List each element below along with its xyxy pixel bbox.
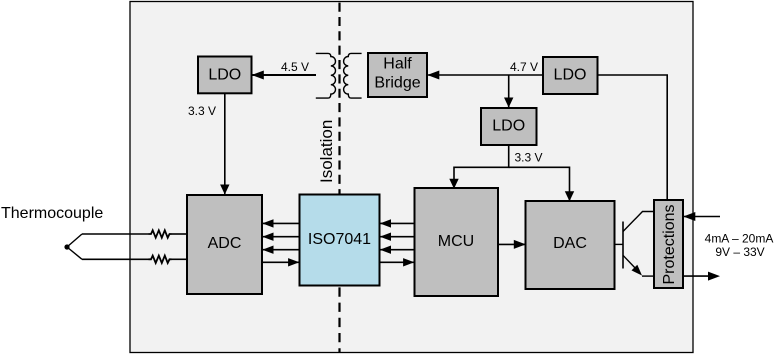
wire data line ADC-ISO 1 (into ADC) xyxy=(262,222,300,224)
svg-text:LDO: LDO xyxy=(492,118,525,135)
svg-text:LDO: LDO xyxy=(554,66,587,83)
svg-text:LDO: LDO xyxy=(208,66,241,83)
wire 4.7V: LDO2 to Half Bridge xyxy=(427,74,543,76)
wire data line ISO-MCU 2 (into ISO7041) xyxy=(380,236,415,238)
wire data line ISO-MCU 4 (into MCU) xyxy=(380,261,415,263)
wire: junction down to LDO3 xyxy=(508,75,510,107)
svg-text:MCU: MCU xyxy=(438,233,474,250)
ADC block xyxy=(187,195,262,294)
svg-text:ISO7041: ISO7041 xyxy=(308,231,371,248)
wire data line ADC-ISO 2 (into ADC) xyxy=(262,236,300,238)
wire data line ADC-ISO 4 (into ISO7041) xyxy=(262,261,300,263)
output arrow from Protections right side xyxy=(683,275,709,277)
wire 3.3V: LDO1 down to ADC xyxy=(224,93,226,194)
LDO U2 (bus side) xyxy=(543,57,598,94)
splitter bar xyxy=(622,222,624,269)
wire data line ISO-MCU 3 (into ISO7041) xyxy=(380,249,415,251)
svg-text:DAC: DAC xyxy=(553,235,587,252)
Half Bridge block xyxy=(368,53,427,97)
resistor (upper thermocouple lead) xyxy=(149,230,172,237)
Protections block xyxy=(654,200,683,288)
svg-text:4.5 V: 4.5 V xyxy=(281,60,309,74)
wire data line ADC-ISO 3 (into ADC) xyxy=(262,249,300,251)
DAC block xyxy=(526,201,615,289)
LDO U3 (3.3V) xyxy=(481,108,537,145)
input arrow into Protections right side xyxy=(683,216,720,218)
resistor (lower thermocouple lead) xyxy=(149,256,172,263)
wire thermocouple upper lead xyxy=(82,233,149,235)
wire thermocouple lower lead xyxy=(82,258,149,260)
svg-text:3.3 V: 3.3 V xyxy=(188,104,216,118)
svg-text:Thermocouple: Thermocouple xyxy=(1,205,103,222)
wire: LDO2 right to Protections top xyxy=(598,75,668,200)
svg-text:Protections: Protections xyxy=(661,204,678,284)
LDO U1 (isolated side) xyxy=(198,57,252,94)
isolation barrier dashed line xyxy=(338,3,340,195)
MCU block xyxy=(415,188,499,296)
ISO7041 block xyxy=(300,195,380,286)
wire data line ISO-MCU 1 (into ISO7041) xyxy=(380,222,415,224)
wire DAC output to splitter xyxy=(615,243,624,245)
transformer T1 right winding xyxy=(344,53,362,98)
wire MCU to DAC xyxy=(498,243,525,245)
svg-text:3.3 V: 3.3 V xyxy=(515,151,543,165)
wire 4.5V: transformer to LDO1 xyxy=(252,74,317,76)
svg-text:Isolation: Isolation xyxy=(317,120,336,183)
wire 3.3V rail: LDO3 to MCU and DAC xyxy=(454,145,509,187)
svg-text:ADC: ADC xyxy=(208,235,242,252)
svg-text:4.7 V: 4.7 V xyxy=(510,60,538,74)
splitter upper branch xyxy=(623,212,655,232)
splitter lower branch with arrow xyxy=(623,255,635,268)
transformer T1 left winding xyxy=(316,53,336,98)
main board box xyxy=(130,2,693,353)
svg-text:9V – 33V: 9V – 33V xyxy=(715,245,764,259)
svg-text:Half: Half xyxy=(383,56,412,73)
thermocouple junction xyxy=(64,244,69,249)
svg-text:Bridge: Bridge xyxy=(374,75,420,92)
svg-text:4mA – 20mA: 4mA – 20mA xyxy=(705,232,774,246)
